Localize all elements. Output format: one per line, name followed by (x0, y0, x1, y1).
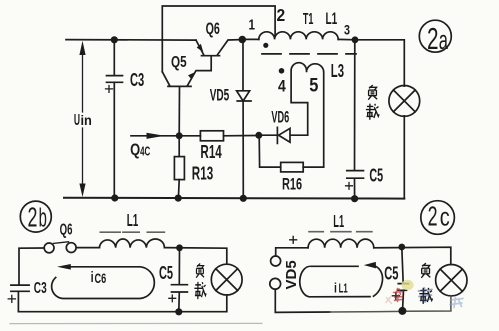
diode VD5 (237, 40, 251, 199)
current loop iL1 (300, 265, 383, 297)
svg-text:c: c (440, 202, 450, 231)
svg-text:b: b (39, 204, 47, 232)
svg-text:Q5: Q5 (171, 52, 187, 70)
wire: 2b lamp bottom + bottom rail (18, 295, 226, 312)
svg-text:C5: C5 (384, 264, 399, 285)
plus sign near 2c L1 (290, 236, 297, 243)
svg-text:2: 2 (277, 5, 286, 25)
node: VD6/R16 junction (255, 132, 262, 139)
svg-text:R13: R13 (192, 164, 214, 184)
wire: 2a top loop from Q5 collector to T1 pin2 (162, 6, 275, 72)
node: 2c bottom C5 (398, 307, 406, 315)
node: 2b top C5 (176, 244, 183, 251)
arrow of Q6 (197, 44, 204, 52)
faint pink smudge (386, 297, 392, 304)
badge circle 2b (20, 201, 51, 232)
phase dot of T1 primary (263, 43, 268, 48)
node: T1 pin 1 (239, 36, 247, 44)
transformer T1 winding L1 (242, 38, 259, 40)
arrowhead of iL1 (364, 262, 376, 269)
node: 2b bottom C5 (175, 308, 182, 315)
transistor Q6 (196, 40, 242, 56)
plus sign of C5 (346, 183, 353, 190)
plus sign of 2b C5 (169, 295, 176, 302)
wire: 2a lamp bottom (403, 116, 405, 199)
arrowhead of ic6 (57, 264, 71, 270)
core dashes of 2b L1 (100, 231, 164, 233)
svg-text:VD6: VD6 (271, 108, 289, 127)
svg-text:5: 5 (309, 74, 318, 96)
svg-text:1: 1 (249, 16, 255, 33)
lamp of 2c (436, 265, 467, 296)
badge circle 2c (421, 201, 455, 235)
svg-text:Q6: Q6 (206, 19, 220, 38)
svg-text:a: a (439, 25, 449, 55)
capacitor C3 (107, 40, 123, 198)
arrow of Q5 (188, 73, 194, 80)
label 载 (2b) (194, 282, 206, 299)
svg-text:VD5: VD5 (283, 260, 300, 289)
svg-text:3: 3 (344, 22, 350, 38)
core dashed line of T1 (262, 53, 356, 55)
capacitor C5 of 2b (172, 248, 188, 312)
blue watermark strokes over 载 (419, 288, 433, 302)
diode VD6 (259, 127, 308, 143)
node: rail-C3 (111, 194, 118, 201)
lamp of 2b (211, 264, 242, 295)
svg-text:i: i (91, 268, 94, 285)
phase dot of L3 (279, 68, 285, 74)
wire: 2a bottom rail (64, 197, 404, 200)
svg-text:VD5: VD5 (210, 85, 230, 104)
inductor L1 of 2c (308, 239, 374, 248)
node: rail-top-C3 (111, 36, 118, 43)
wire: switch to L1 (77, 247, 100, 249)
svg-text:C3: C3 (34, 278, 47, 296)
svg-text:4: 4 (278, 78, 286, 96)
svg-text:U: U (74, 111, 80, 128)
node: T1 pin 3 (352, 36, 359, 43)
svg-text:2: 2 (427, 21, 439, 56)
svg-text:L1: L1 (127, 211, 139, 231)
svg-text:4C: 4C (140, 145, 150, 159)
node: rail-R13 (175, 195, 182, 202)
capacitor C5 of 2a (347, 40, 364, 199)
wire: 2c lamp bottom (402, 296, 451, 311)
svg-text:C5: C5 (159, 263, 173, 284)
transistor Q5 (162, 57, 211, 87)
diode VD5 terminal circles (271, 256, 281, 266)
svg-text:L1: L1 (326, 10, 338, 28)
switch Q6 lever (54, 242, 69, 244)
label 载 (2a) (366, 104, 379, 120)
wire: 2b top left (19, 248, 44, 284)
light blue watermark strokes (450, 298, 463, 308)
label 载 (2c) (419, 288, 432, 304)
load lamp of 2a (389, 86, 420, 117)
plus sign of 2c C5 (392, 292, 399, 299)
inductor L1 of 2b (99, 239, 164, 248)
wire: 2a top rail (left) (66, 39, 196, 42)
svg-text:R14: R14 (200, 142, 222, 162)
svg-text:i: i (334, 280, 337, 296)
node: rail-VD5 (240, 195, 247, 202)
watermark blobs (386, 280, 463, 308)
wire: 2c left bottom (275, 289, 330, 312)
winding L3 (291, 63, 324, 168)
stray scan line bottom (10, 322, 262, 324)
badge circle 2a (419, 20, 451, 52)
svg-text:T1: T1 (303, 9, 314, 28)
svg-text:L1: L1 (339, 282, 348, 297)
label 负 (2b) (196, 263, 204, 277)
capacitor C5 of 2c (398, 247, 409, 311)
red watermark strokes (394, 289, 404, 302)
Uin arrow annotation (82, 54, 84, 184)
resistor R16 (259, 136, 324, 168)
svg-text:in: in (81, 113, 92, 128)
svg-text:C6: C6 (95, 272, 107, 286)
wire: Q5 base lead (178, 86, 180, 135)
core dashes of 2c L1 (309, 231, 372, 233)
svg-text:L1: L1 (333, 212, 344, 232)
resistor R13 (177, 136, 180, 198)
Q4C drive arrow (131, 135, 178, 137)
node: rail-C5 (351, 195, 358, 202)
svg-text:Q6: Q6 (60, 220, 73, 238)
svg-text:C5: C5 (369, 165, 383, 186)
plus sign of 2b C3 (8, 295, 15, 302)
svg-text:2: 2 (28, 201, 38, 232)
capacitor C3 of 2b (11, 285, 29, 312)
svg-text:2: 2 (428, 200, 438, 231)
wire: 2c top to lamp (374, 247, 451, 264)
svg-text:C3: C3 (130, 70, 144, 91)
svg-text:R16: R16 (282, 174, 302, 193)
svg-text:Q: Q (130, 142, 140, 160)
resistor R14 (179, 135, 258, 137)
switch Q6 contact circles (44, 243, 54, 253)
label 负 (2c) (421, 263, 430, 278)
node: Q5 base / R14 / R13 (176, 132, 183, 139)
wire: 2c top left (276, 248, 308, 256)
svg-text:L3: L3 (331, 61, 344, 81)
node: 2c top C5 (398, 244, 405, 251)
label 负 (2a) (368, 85, 377, 100)
wire: 2a top right to lamp (355, 40, 404, 86)
current loop ic6 (52, 267, 155, 299)
wire: L1 to lamp branch (164, 248, 226, 264)
plus sign of C3 (106, 86, 113, 93)
